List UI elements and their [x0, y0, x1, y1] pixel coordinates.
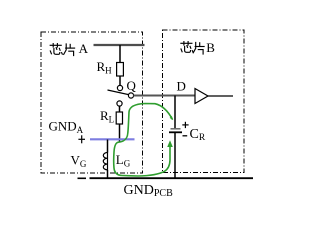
minus sign (C_R) [183, 135, 188, 137]
current loop arrowhead (up, at C_R bottom) [167, 140, 173, 147]
resistor R_H body [117, 63, 124, 77]
resistor R_L body [116, 112, 122, 124]
wire C_R to GND_PCB rail [174, 132, 176, 178]
wire R_L to GND_A net [119, 124, 121, 142]
plus sign (V_G top) [78, 135, 85, 143]
svg-text:D: D [177, 79, 186, 94]
wire switch bottom contact to R_L [119, 106, 121, 112]
switch Q lever [108, 90, 129, 95]
GND_PCB rail [90, 177, 254, 179]
plus sign (C_R) [182, 122, 188, 128]
minus sign (V_G bottom) [78, 177, 87, 179]
svg-text:A: A [79, 41, 89, 56]
wire node D down to C_R [174, 96, 176, 129]
wire L_G to GND_PCB rail [107, 170, 109, 178]
svg-text:B: B [206, 40, 215, 55]
chip B boundary box [163, 30, 245, 173]
switch Q top contact [117, 85, 122, 90]
wire switch common to node D and buffer input [133, 95, 195, 97]
switch Q bottom contact [117, 101, 122, 106]
current loop arrowhead (at C_R top end) [170, 116, 174, 120]
wire R_H to switch top contact [119, 76, 121, 86]
chip A boundary box [41, 32, 143, 173]
svg-text:Q: Q [127, 78, 137, 93]
GND_A net (blue) [90, 138, 135, 140]
current loop (green) main path [114, 104, 173, 177]
capacitor C_R top plate [171, 128, 181, 130]
wire rail to R_H [119, 45, 121, 63]
VCC rail (chip A) [94, 44, 145, 46]
chip B label (芯片 B) [181, 42, 204, 54]
buffer U1 [195, 89, 208, 104]
wire buffer output [208, 95, 233, 97]
chip A label (芯片 A) [50, 44, 74, 56]
inductor L_G coil [103, 153, 107, 170]
switch Q common contact [128, 93, 133, 98]
wire GND_A net to L_G [107, 140, 109, 153]
capacitor C_R bottom plate [169, 131, 182, 133]
